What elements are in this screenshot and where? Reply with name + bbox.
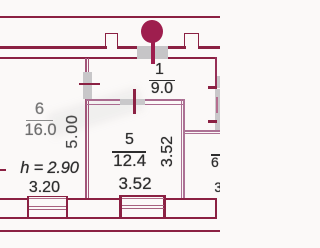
window W1 glazing 2 xyxy=(29,209,66,210)
dim 3.52 vertical xyxy=(161,135,174,168)
top wall outer line seg b xyxy=(117,46,169,48)
right door leaf xyxy=(216,97,218,113)
bottom wall top line seg2 xyxy=(67,198,121,200)
chimney wall gray block xyxy=(137,46,168,59)
ceiling height label xyxy=(18,162,82,175)
chimney stem lower xyxy=(151,46,155,64)
top wall outer line seg c xyxy=(167,46,186,48)
right door opening gray xyxy=(215,89,220,131)
right door dash upper xyxy=(208,86,217,89)
window W2 glazing 1 xyxy=(122,205,164,206)
upper boundary line xyxy=(0,16,220,18)
corridor doors gray band xyxy=(120,99,144,106)
bottom wall right cap xyxy=(215,198,217,219)
window W2 inner top line xyxy=(122,198,164,199)
room 6 number xyxy=(30,102,50,116)
chimney circle xyxy=(141,20,163,43)
window W1 inner top line xyxy=(29,198,66,199)
top wall outer line seg d xyxy=(198,46,220,48)
top wall outer line seg a xyxy=(0,46,107,48)
bottom wall bottom line xyxy=(0,217,217,219)
door room6 dash xyxy=(79,83,100,85)
top wall bump 1 xyxy=(105,33,118,48)
room 6 fraction bar xyxy=(26,120,54,122)
watermark smear xyxy=(47,87,145,138)
window W1 outer line xyxy=(27,196,68,198)
partition room5/room6r line2 xyxy=(183,99,184,199)
corridor bottom wall line 1 xyxy=(86,99,185,100)
room 6 area 16.0 xyxy=(25,123,56,137)
room 6r area 6 xyxy=(210,156,220,168)
window W2 right jamb xyxy=(163,195,166,218)
right exterior wall xyxy=(215,57,217,89)
window W2 glazing 2 xyxy=(122,208,164,209)
room 1 number xyxy=(149,63,169,77)
room 1 fraction bar xyxy=(149,80,175,82)
room6r top wall line1 xyxy=(185,130,221,132)
room 5 fraction bar xyxy=(112,151,146,153)
corridor doors divider xyxy=(133,89,136,114)
left edge dimension dash xyxy=(0,169,6,171)
room 5 area 12.4 xyxy=(113,154,146,168)
window W1 glazing 1 xyxy=(29,206,66,207)
room 6r fraction bar xyxy=(211,154,221,156)
right door dash lower xyxy=(208,120,217,123)
bottom wall top line seg1 xyxy=(0,198,28,200)
top wall inner line xyxy=(0,57,217,59)
room 1 area 9.0 xyxy=(149,82,175,96)
window W1 right jamb xyxy=(66,196,68,219)
dim 5.00 vertical xyxy=(66,115,79,148)
room 5 number xyxy=(120,133,140,147)
window W1 left jamb xyxy=(27,196,29,219)
room6r top wall line2 xyxy=(185,133,221,135)
lower boundary line xyxy=(0,230,220,232)
wall room6/corridor and room6/room5 xyxy=(85,58,87,200)
top wall bump 2 xyxy=(184,33,199,48)
chimney stem xyxy=(151,36,155,64)
window W2 left jamb xyxy=(119,195,122,218)
dim 3.52 bottom xyxy=(118,177,152,191)
door room6 gray block xyxy=(83,72,92,99)
dim 3 right clipped xyxy=(214,182,232,194)
corridor bottom wall line 2 xyxy=(86,104,185,105)
window W2 outer line xyxy=(120,195,166,197)
bottom wall top line seg3 xyxy=(164,198,217,200)
right edge door gray xyxy=(217,76,220,88)
partition room5/room6r line1 xyxy=(181,99,182,199)
dim 3.20 xyxy=(29,181,60,194)
